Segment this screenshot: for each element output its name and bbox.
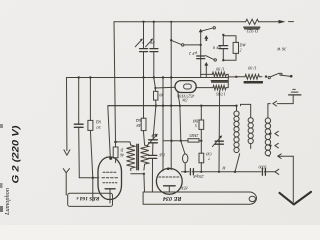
svg-text:5: 5 bbox=[195, 123, 197, 127]
svg-text:DØ: DØ bbox=[193, 118, 200, 122]
svg-text:RES 164 s: RES 164 s bbox=[76, 195, 100, 201]
svg-text:250pF: 250pF bbox=[193, 174, 204, 179]
svg-text:36 W: 36 W bbox=[276, 47, 287, 52]
svg-text:4527/VF93: 4527/VF93 bbox=[177, 94, 194, 98]
svg-text:-5W: -5W bbox=[181, 98, 188, 102]
svg-text:17/45: 17/45 bbox=[216, 92, 226, 97]
svg-text:µµ: µµ bbox=[149, 41, 154, 46]
svg-text:2: 2 bbox=[240, 48, 242, 53]
svg-text:µF 2: µF 2 bbox=[189, 51, 197, 56]
svg-text:5000: 5000 bbox=[259, 164, 267, 169]
svg-text:40: 40 bbox=[159, 92, 163, 96]
svg-text:µF 9: µF 9 bbox=[212, 45, 221, 50]
svg-text:kΩ: kΩ bbox=[96, 120, 101, 125]
svg-text:Lumophon: Lumophon bbox=[4, 188, 11, 216]
svg-text:U 09: U 09 bbox=[247, 65, 256, 70]
svg-text:kΩ: kΩ bbox=[136, 118, 141, 123]
svg-text:1µF: 1µF bbox=[158, 152, 165, 156]
svg-text:D 923: D 923 bbox=[246, 28, 259, 33]
svg-text:UØ: UØ bbox=[206, 151, 212, 155]
svg-text:G 2 (220 V): G 2 (220 V) bbox=[10, 126, 21, 184]
svg-text:1µF: 1µF bbox=[150, 133, 157, 137]
svg-text:RE 034: RE 034 bbox=[163, 195, 183, 201]
svg-text:2M45: 2M45 bbox=[189, 133, 198, 137]
svg-text:85V: 85V bbox=[181, 185, 188, 190]
svg-text:D: D bbox=[121, 147, 125, 151]
svg-text:U 99: U 99 bbox=[215, 66, 224, 71]
svg-text:46: 46 bbox=[120, 152, 124, 156]
